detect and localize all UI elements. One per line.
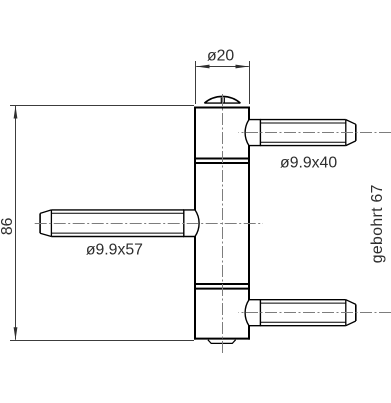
svg-text:ø9.9x57: ø9.9x57 [86,242,143,259]
svg-text:86: 86 [0,217,16,235]
svg-text:gebohrt 67: gebohrt 67 [369,184,386,263]
svg-text:ø9.9x40: ø9.9x40 [280,154,337,171]
svg-text:ø20: ø20 [207,48,234,65]
